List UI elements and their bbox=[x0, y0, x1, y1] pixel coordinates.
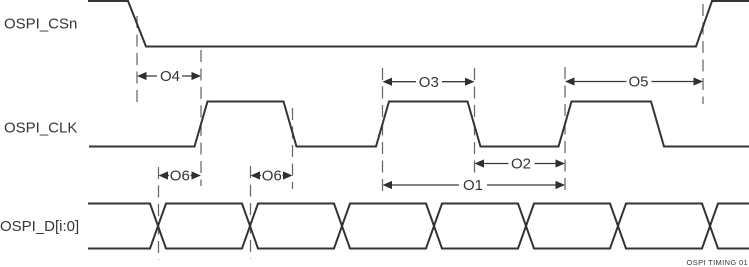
dashed ref line: OSPI_CSn falling edge x=137 bbox=[136, 16, 138, 105]
dashed ref line: OSPI_CLK first rising edge x=201 bbox=[200, 50, 202, 186]
dashed ref line: second data crossover x=250.5 bbox=[250, 166, 252, 259]
svg-text:O6: O6 bbox=[170, 168, 190, 185]
dimension arrow O6 second (data valid to CLK fall) bbox=[251, 168, 293, 185]
svg-text:O5: O5 bbox=[628, 74, 648, 91]
dashed ref line: OSPI_CLK second falling edge x=474.5 bbox=[474, 68, 476, 176]
dashed ref line: OSPI_CLK second rising edge x=382.5 bbox=[382, 68, 384, 192]
waveform OSPI_CLK bbox=[89, 102, 749, 147]
dimension arrow O5 (CLK rise to CSn rise) bbox=[565, 74, 703, 91]
dimension arrow O6 first (data valid to CLK rise) bbox=[159, 168, 202, 185]
dashed ref line: OSPI_CLK first falling edge x=293 bbox=[292, 108, 294, 189]
svg-text:OSPI_CLK: OSPI_CLK bbox=[4, 119, 77, 136]
dimension arrow O4 (CSn fall to CLK rise) bbox=[137, 68, 201, 85]
dashed ref line: OSPI_CLK third rising edge x=565 bbox=[564, 67, 566, 190]
svg-text:OSPI TIMING 01: OSPI TIMING 01 bbox=[687, 258, 748, 267]
svg-text:O4: O4 bbox=[160, 68, 180, 85]
waveform OSPI_D[i:0] bus upper trace bbox=[88, 204, 749, 249]
dimension arrow O2 (CLK low pulse width) bbox=[475, 156, 566, 173]
svg-text:OSPI_CSn: OSPI_CSn bbox=[4, 15, 77, 32]
dashed ref line: first data crossover x=158.5 bbox=[158, 167, 160, 260]
waveform OSPI_D[i:0] bus lower trace bbox=[88, 204, 749, 249]
svg-text:OSPI_D[i:0]: OSPI_D[i:0] bbox=[0, 218, 79, 235]
dimension arrow O1 (CLK period) bbox=[383, 177, 566, 194]
svg-text:O2: O2 bbox=[511, 156, 531, 173]
svg-text:O3: O3 bbox=[419, 74, 439, 91]
svg-text:O1: O1 bbox=[463, 177, 483, 194]
dimension arrow O3 (CLK high pulse width) bbox=[383, 74, 475, 91]
waveform OSPI_CSn bbox=[88, 1, 749, 47]
dashed ref line: OSPI_CSn rising edge x=703 bbox=[702, 4, 704, 104]
svg-text:O6: O6 bbox=[262, 168, 282, 185]
